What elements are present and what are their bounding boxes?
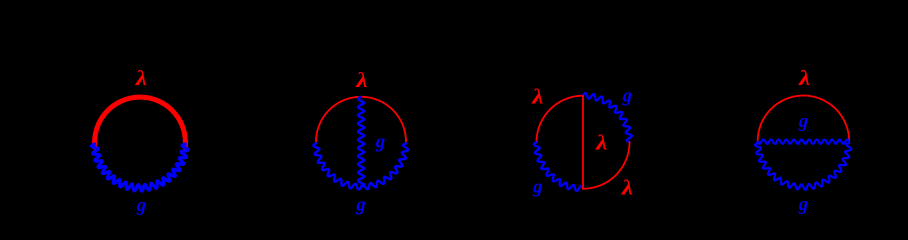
gauge propagator wavy vertical line g (diagram 2) (358, 97, 364, 187)
svg-text:g: g (798, 195, 808, 215)
svg-text:λ: λ (621, 176, 633, 200)
gauge propagator wavy arc g (diagram 2 bottom) (313, 143, 408, 189)
svg-text:g: g (355, 196, 365, 216)
svg-text:λ: λ (595, 131, 607, 155)
gauge propagator wavy arc g (diagram 1 bottom) (91, 144, 188, 191)
scalar propagator arc lambda (diagram 1 top) (95, 97, 186, 147)
svg-text:g: g (136, 196, 146, 216)
gauge wavy arc g bottom-left (diagram 3) (534, 142, 583, 191)
svg-text:λ: λ (135, 67, 147, 91)
scalar vertical line lambda (diagram 3) (582, 96, 584, 189)
svg-text:g: g (798, 112, 808, 132)
svg-text:λ: λ (355, 69, 367, 93)
svg-text:g: g (532, 178, 542, 198)
scalar propagator arc lambda (diagram 2 top) (316, 97, 406, 142)
svg-text:g: g (375, 133, 385, 153)
gauge wavy arc g top-right (diagram 3) (583, 93, 632, 142)
scalar arc lambda bottom-right (diagram 3) (583, 142, 630, 189)
scalar arc lambda top-left (diagram 3) (537, 96, 584, 143)
gauge propagator wavy chord g (diagram 4 middle) (758, 139, 850, 143)
gauge propagator wavy arc g (diagram 4 bottom) (755, 143, 851, 190)
svg-text:λ: λ (798, 67, 810, 91)
scalar propagator arc lambda (diagram 4 top) (758, 96, 850, 142)
svg-text:g: g (622, 87, 632, 107)
svg-text:λ: λ (531, 85, 543, 109)
